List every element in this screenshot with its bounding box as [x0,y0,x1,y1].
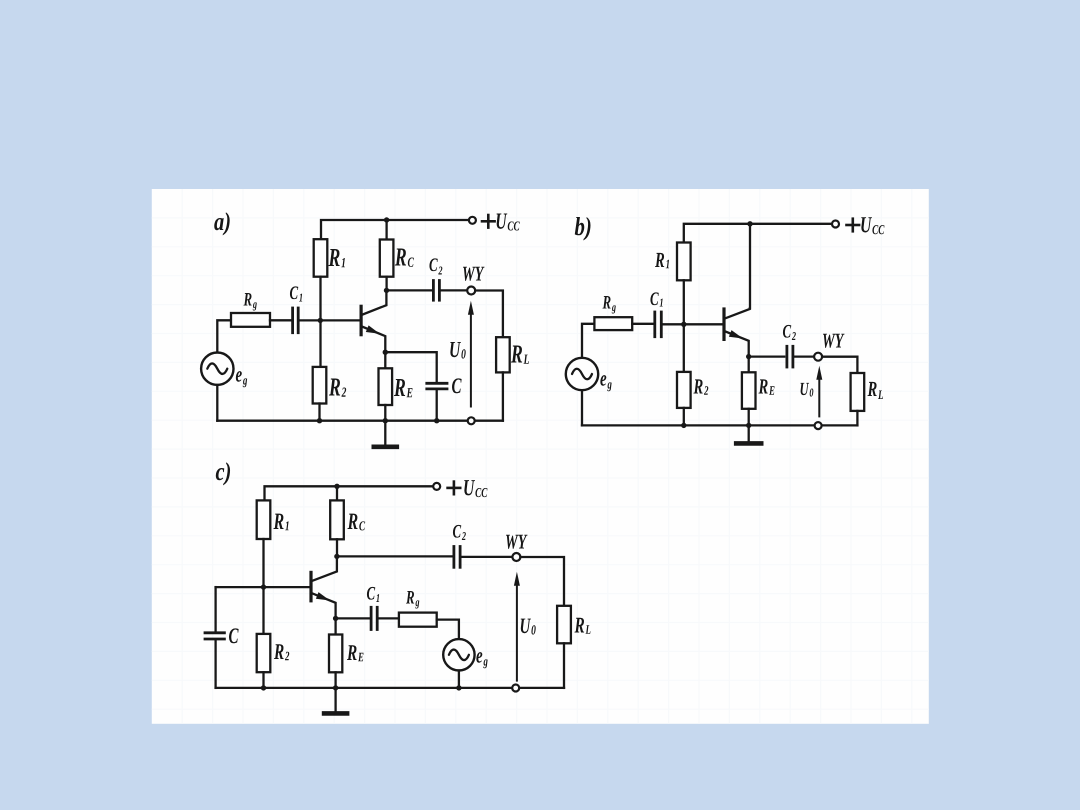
wire: bypass C to ground rail (c) [214,639,216,688]
label R1 (b) [655,253,669,268]
label R2 (c) [274,644,289,660]
junction: emitter node (b) [746,354,751,359]
label eg (c) [476,652,487,668]
label R1 (a) [328,249,344,267]
label Rc (a) [395,248,414,266]
resistor Rc (a) [380,240,394,277]
wire: eg to ground rail (b) [581,390,583,425]
wire: emitter to RE (b) [748,357,750,373]
capacitor C1 (a) [291,307,294,335]
junction: rail at R2 (c) [261,685,266,690]
resistor RE (c) [329,635,342,673]
label eg (b) [600,375,611,391]
junction: rail at collector (b) [747,221,752,226]
AC source eg (a) [201,353,233,385]
label C1 (c) [367,587,379,602]
wire: rail to RC (c) [336,486,338,500]
wire: +Ucc rail (c) [265,486,434,500]
junction: base node (a) [318,318,323,323]
junction: rail at eg (c) [456,685,461,690]
wire: Rg to eg (c) [437,620,459,640]
label b) [575,217,591,241]
arrow U0 output voltage (a) [468,301,474,315]
ground symbol (b) [748,425,750,442]
label Rg (a) [243,293,256,310]
wire: RE to ground rail (b) [748,409,750,426]
terminal +Ucc (b) [832,221,839,228]
label R2 (b) [693,379,708,394]
label U0 (c) [521,619,536,635]
wire: RE to ground rail (a) [384,405,386,421]
wire: RL to ground rail (a) [502,372,504,420]
wire: C1 to Rg (c) [377,617,399,619]
capacitor C1 (c) [370,606,373,631]
junction: collector node (a) [384,288,389,293]
label eg (a) [236,371,247,387]
label RL (a) [511,345,529,363]
label C2 (b) [783,325,796,340]
junction: emitter node (a) [383,350,388,355]
wire: emitter to RE (a) [384,352,386,368]
wire: R1 to R2 via base node (a) [319,277,321,367]
capacitor C bypass (a) [425,382,448,385]
junction: rail at R2 (b) [681,423,686,428]
junction: base node (c) [261,584,266,589]
resistor RE (b) [742,372,756,409]
label c) [216,462,230,485]
junction: emitter node (c) [333,616,338,621]
label RC (c) [347,514,365,531]
wire: emitter node to bypass C (a) [385,352,436,383]
label C1 (b) [650,292,662,306]
terminal: output common (b) [815,422,822,429]
junction: rail at bypass C (a) [434,418,439,423]
wire: WY to RL (a) [475,291,503,338]
label C1 (a) [290,286,302,301]
label WY (a) [463,267,485,281]
resistor RL (b) [851,373,865,411]
resistor R1 (b) [677,243,691,281]
resistor Rg (a) [231,313,270,327]
wire: RL to ground rail (c) [563,643,565,688]
label U0 (a) [450,342,465,359]
resistor Rg (b) [594,317,632,330]
arrow U0 output voltage (b) [816,366,822,380]
label RL (b) [867,382,883,399]
transistor Q (a): base bar [360,305,363,337]
label C2 (c) [453,525,466,540]
resistor RL (a) [496,337,510,372]
wire: R1 to R2 via base node (c) [262,539,264,634]
wire: eg to ground rail (a) [216,385,218,421]
label +Ucc (b) [845,224,860,227]
ground symbol (a) [384,421,386,446]
wire: collector to C2 (a) [387,289,434,291]
transistor Q (c): emitter lead with arrow [312,593,336,618]
transistor Q (c): collector lead [312,556,337,581]
resistor Rg (c) [399,613,437,627]
junction: rail at RC (c) [334,484,339,489]
junction: rail at RE / ground (b) [746,423,751,428]
wire: R2 to ground rail (c) [262,672,264,688]
label RE (a) [394,379,413,397]
wire: eg to ground rail (c) [458,671,460,688]
terminal: output common (c) [512,685,519,692]
label WY (b) [823,334,845,348]
transistor Q (a): collector lead [362,290,386,314]
junction: rail at RE / ground (c) [333,685,338,690]
arrow U0 output voltage (c) [514,572,520,586]
junction: rail at Rc (a) [384,217,389,222]
wire: C2 to WY terminal (b) [793,355,815,357]
wire: C2 to WY terminal (c) [460,556,513,558]
junction: collector node (c) [334,554,339,559]
label U0 (b) [801,383,814,397]
transistor Q (b): base bar [722,307,725,341]
label C (c) [229,628,239,643]
wire: R2 to ground rail (b) [683,408,685,426]
label C2 (a) [429,258,442,274]
wire: Rg to C1 (b) [632,323,654,325]
label a) [214,212,229,235]
terminal WY (c) [512,553,520,561]
resistor R2 (a) [313,367,327,404]
capacitor C2 (c) [452,545,455,569]
wire: R2 to ground rail (a) [318,404,320,421]
wire: base wire C1 to Q (b) [662,323,724,325]
capacitor C1 (b) [653,311,656,339]
resistor R2 (c) [257,634,271,672]
resistor R1 (a) [314,239,328,277]
label +Ucc (a) [481,220,496,223]
label Rg (b) [602,296,615,313]
junction: rail at R2 (a) [317,418,322,423]
transistor Q (b): emitter lead with arrow [725,331,749,356]
label R1 (c) [273,514,288,531]
terminal +Ucc (c) [433,483,440,490]
wire: Rc to collector node (a) [385,277,387,291]
wire: WY to RL (b) [822,357,857,373]
wire: bypass C to ground rail (a) [436,389,438,421]
wire: +Ucc rail (a) [321,220,469,239]
AC source eg (c) [443,639,474,670]
wire: collector to C2 (c) [337,555,454,557]
wire: C2 to WY terminal (a) [440,289,468,291]
wire: rail to collector (b) [749,224,751,309]
wire: emitter node to C2 (b) [749,355,785,357]
resistor RL (c) [557,606,571,644]
transistor Q (a): emitter lead with arrow [362,327,385,353]
label +Ucc (c) [446,487,461,490]
capacitor C2 (a) [432,279,435,302]
wire: R1 to R2 via base node (b) [683,280,685,372]
wire: base wire C1 to Q (a) [298,319,360,321]
label RE (c) [347,645,364,661]
resistor R1 (c) [257,500,271,539]
wire: WY to RL (c) [520,557,564,606]
wire: RL to ground rail (b) [856,411,858,426]
resistor RC (c) [330,500,344,539]
label RE (b) [758,379,774,394]
AC source eg (b) [566,358,598,390]
label RL (c) [574,618,590,634]
terminal WY (a) [467,287,475,295]
wire: base node to bypass C (c) [214,587,216,632]
wire: Rg to C1 (a) [270,319,292,321]
wire: eg to Rg (a) [217,320,231,352]
capacitor C bypass (c) [204,631,226,634]
wire: RE to ground rail (c) [334,672,336,688]
label Rg (c) [406,591,419,608]
transistor Q (c): base bar [309,571,312,603]
wire: RC to collector node (c) [336,539,338,556]
terminal: output common (a) [468,417,475,424]
wire: base wire to Q (c) [216,586,310,588]
label WY (c) [506,535,528,549]
resistor R2 (b) [677,372,691,408]
junction: rail at RE / ground (a) [383,418,388,423]
ground symbol (c) [334,688,336,712]
capacitor C2 (b) [786,345,789,369]
wire: ground rail (b) [582,424,857,426]
transistor Q (b): collector lead [725,308,750,318]
wire: +Ucc rail (b) [684,224,832,243]
junction: base node (b) [681,322,686,327]
wire: eg to Rg (b) [582,324,594,358]
label C (a) [452,378,462,393]
wire: emitter to RE (c) [334,618,336,634]
label R2 (a) [329,378,346,396]
wire: ground rail (a) [217,420,503,422]
wire: emitter node to C1 (c) [336,617,369,619]
resistor RE (a) [379,368,393,405]
terminal WY (b) [814,353,822,361]
terminal +Ucc (a) [469,217,476,224]
wire: ground rail (c) [216,687,564,689]
wire: rail to Rc (a) [385,220,387,240]
